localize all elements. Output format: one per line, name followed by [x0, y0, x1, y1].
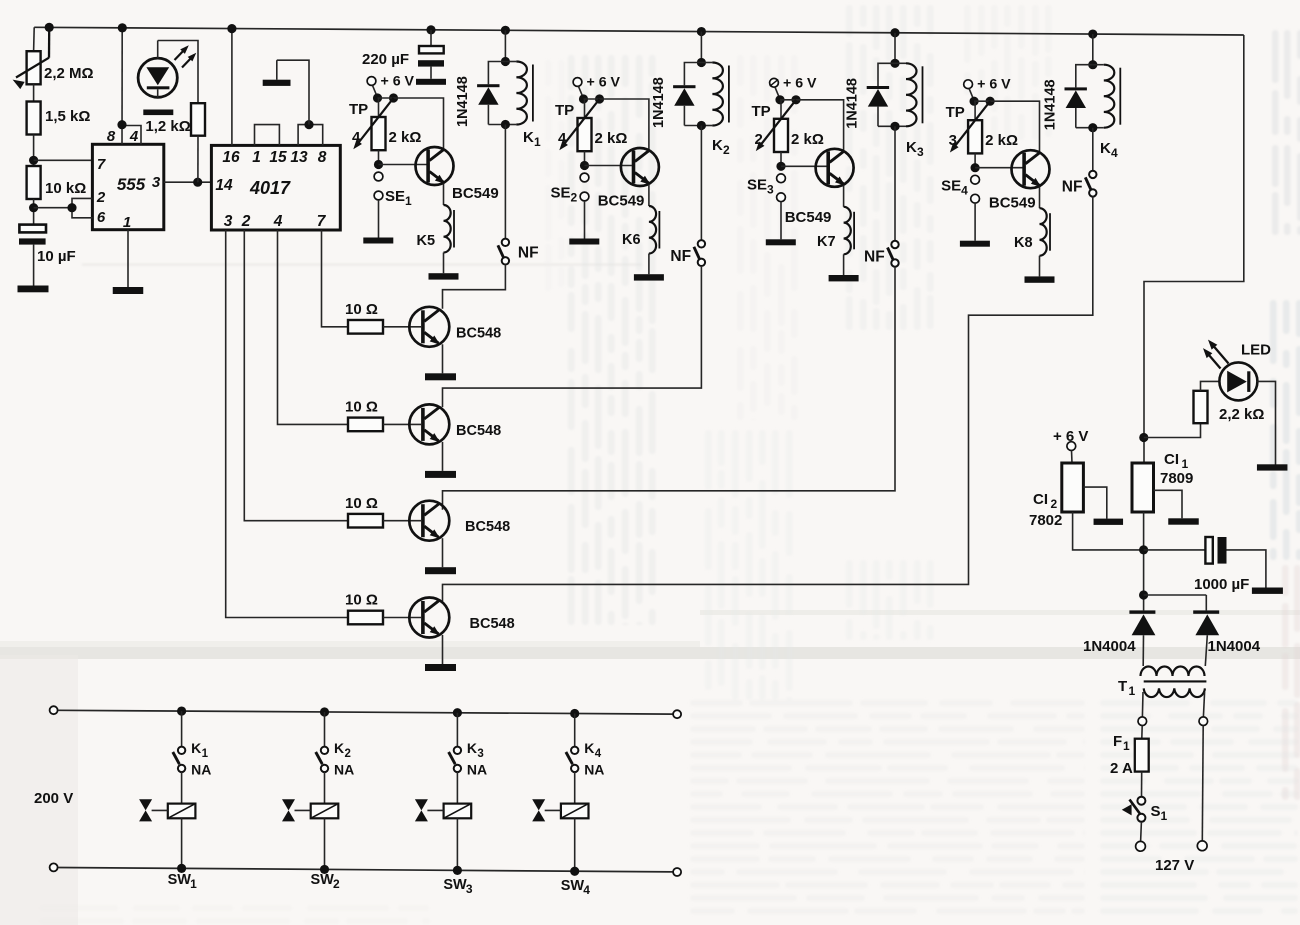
switch NF2 contact: [698, 240, 705, 247]
svg-text:SE: SE: [551, 185, 571, 202]
node base ch3: [776, 162, 785, 171]
svg-text:K5: K5: [417, 233, 436, 249]
svg-text:6: 6: [97, 209, 106, 226]
wire 555 pin 3 output: [164, 181, 212, 183]
wire NF4 to driver: [443, 197, 1093, 602]
svg-text:1,5 kΩ: 1,5 kΩ: [45, 108, 90, 125]
solenoid valve SW3: [444, 804, 472, 819]
wire rail to K4: [1092, 34, 1094, 65]
switch NF1 contact: [502, 239, 509, 246]
svg-text:LED: LED: [1241, 342, 1271, 359]
svg-text:1: 1: [202, 748, 209, 760]
switch NF4 contact: [1089, 171, 1096, 178]
svg-text:K: K: [523, 129, 534, 146]
node 220uF rail: [426, 25, 435, 34]
wire to contact K1: [181, 711, 183, 747]
svg-text:10 µF: 10 µF: [37, 248, 76, 265]
wire pins 13-8 bracket: [298, 125, 323, 146]
svg-text:K: K: [1100, 140, 1111, 157]
node trimpot top B ch3: [791, 95, 800, 104]
svg-text:10 Ω: 10 Ω: [345, 301, 378, 318]
resistor 10 kohm: [27, 166, 41, 199]
ground 4017 pins 13-8: [263, 80, 291, 86]
svg-text:BC548: BC548: [470, 616, 515, 632]
solenoid valve SW4: [561, 804, 589, 819]
LED indicator D1: [138, 58, 177, 97]
svg-text:2: 2: [571, 191, 578, 205]
svg-text:TP: TP: [349, 101, 368, 118]
svg-text:K: K: [334, 740, 344, 756]
svg-text:1: 1: [1161, 809, 1168, 823]
LED pilot D5: [1219, 362, 1257, 400]
wire NF3 to driver: [443, 267, 896, 510]
wire coil to bus SW3: [456, 818, 458, 870]
wire emitter to K5 ch1: [443, 184, 445, 206]
wire 10k to cap: [33, 199, 35, 225]
capacitor 220 uF: [430, 30, 432, 46]
trimpot TP4 2 kohm: [378, 98, 380, 117]
svg-text:2 A: 2 A: [1110, 760, 1133, 777]
ground 220uF: [416, 79, 446, 85]
wire emitter to K6 ch2: [648, 185, 650, 207]
svg-text:NA: NA: [467, 762, 487, 778]
svg-text:BC548: BC548: [456, 423, 501, 439]
svg-text:BC549: BC549: [989, 195, 1036, 212]
resistor 1,2 kohm: [191, 103, 205, 136]
wire +6V to trimpot 1: [373, 85, 378, 97]
wire primary left lead: [1141, 692, 1144, 717]
wire LED to ground: [1257, 381, 1275, 464]
wire contact to valve coil 3: [456, 772, 458, 804]
svg-text:+ 6 V: + 6 V: [977, 77, 1011, 93]
node pins 8-4: [117, 120, 126, 129]
wire coil to bus SW4: [574, 818, 576, 871]
diode 1N4004 D7: [1193, 610, 1219, 613]
diode 1N4148 D2: [684, 63, 701, 86]
wire K8 to ground: [1039, 256, 1041, 277]
wire emitter stage 4: [442, 635, 444, 664]
node +6V terminal channel 1: [367, 77, 376, 86]
wire 1,2k to node: [197, 136, 199, 183]
wire NF1 to driver: [443, 264, 506, 308]
wire to collector ch1: [378, 98, 444, 149]
ground K8: [1025, 276, 1055, 282]
wire +6V top rail: [34, 27, 1244, 35]
wire rail to K3: [894, 33, 896, 64]
resistor 10 ohm stage 4: [348, 611, 383, 625]
node trimpot top A ch1: [373, 93, 382, 102]
op-amp 4017 counter U2: [211, 145, 340, 230]
regulator CI1 7809: [1132, 463, 1154, 512]
svg-text:7: 7: [317, 213, 327, 230]
node pin16 rail: [227, 24, 236, 33]
node LED branch: [1139, 433, 1148, 442]
wire SE4 to ground: [974, 203, 976, 241]
wire contact to valve coil 1: [181, 772, 183, 804]
svg-text:+ 6 V: + 6 V: [783, 75, 817, 91]
relay coil K3: [895, 62, 906, 64]
wire to collector ch4: [974, 101, 1039, 152]
svg-text:1N4148: 1N4148: [455, 76, 471, 127]
svg-text:10 Ω: 10 Ω: [345, 592, 378, 609]
wire SE2 to ground: [584, 201, 586, 239]
ground stage 2: [425, 471, 456, 478]
node bus bottom left terminal: [50, 863, 58, 871]
svg-text:BC549: BC549: [452, 185, 499, 202]
potentiometer 2,2 Mohm: [27, 51, 41, 84]
capacitor 10 uF: [19, 225, 46, 233]
svg-text:2: 2: [241, 213, 251, 230]
wire K4 to NF4: [1092, 128, 1094, 171]
svg-text:4: 4: [961, 184, 968, 198]
svg-text:SW: SW: [443, 877, 467, 893]
svg-text:2 kΩ: 2 kΩ: [985, 132, 1018, 149]
svg-text:SE: SE: [747, 177, 767, 194]
node K4 top: [1088, 60, 1097, 69]
svg-text:1N4148: 1N4148: [651, 77, 667, 128]
svg-text:2 kΩ: 2 kΩ: [595, 130, 628, 147]
wire resistor to LED: [1201, 381, 1220, 390]
resistor 2,2 kohm LED: [1194, 391, 1208, 423]
wire to 555 pin 7: [34, 159, 93, 161]
svg-text:T: T: [1118, 678, 1127, 695]
svg-text:BC549: BC549: [785, 209, 832, 226]
regulator CI2 7802: [1062, 463, 1084, 512]
wire 555 pin 4 bracket: [122, 126, 141, 145]
svg-text:SW: SW: [561, 878, 585, 894]
svg-text:3: 3: [477, 748, 483, 760]
node rail K2: [697, 27, 706, 36]
wire to contact K2: [324, 712, 326, 747]
svg-text:13: 13: [290, 149, 308, 166]
svg-text:15: 15: [269, 149, 287, 166]
svg-text:4: 4: [595, 748, 602, 760]
svg-text:2: 2: [755, 131, 763, 148]
wire CI1 output down: [1143, 512, 1145, 610]
svg-text:2: 2: [96, 189, 106, 206]
wire emitter stage 1: [442, 344, 444, 373]
node pins 2-6 junction: [29, 203, 38, 212]
svg-text:4: 4: [129, 128, 139, 145]
svg-text:7809: 7809: [1160, 470, 1193, 487]
node bus bottom right terminal: [673, 868, 681, 876]
wire contact to valve coil 4: [574, 772, 576, 804]
svg-text:4017: 4017: [249, 178, 291, 198]
resistor 10 ohm stage 3: [348, 514, 383, 528]
svg-text:K7: K7: [817, 234, 836, 250]
svg-text:NF: NF: [670, 248, 691, 265]
transistor Q2 BC549: [621, 148, 659, 186]
wire 4017 output to stage 2: [278, 230, 349, 424]
svg-text:1: 1: [1129, 684, 1136, 698]
svg-text:200 V: 200 V: [34, 790, 73, 807]
wire CI2 to ground: [1083, 487, 1106, 518]
wire emitter to K7 ch3: [843, 185, 845, 207]
node 127V right terminal: [1197, 841, 1207, 851]
wire 555 pin 8 to rail: [121, 28, 123, 145]
svg-text:TP: TP: [555, 102, 574, 119]
svg-text:10 Ω: 10 Ω: [345, 495, 378, 512]
node pins 13-8: [304, 120, 313, 129]
node bus top K3: [453, 708, 462, 717]
node rail-pot wiper: [45, 23, 54, 32]
svg-text:7: 7: [97, 156, 106, 173]
svg-text:220 µF: 220 µF: [362, 51, 409, 68]
relay coil K6: [649, 206, 656, 254]
svg-text:555: 555: [117, 175, 146, 194]
wire 555 pin 1 to ground: [127, 230, 129, 287]
wire 1000uF to ground: [1227, 550, 1266, 588]
node +6V regulator CI2: [1067, 442, 1076, 451]
solenoid valve SW2: [311, 804, 339, 819]
wire SE3 to ground: [780, 202, 782, 240]
wire 555 pins 2-6 bracket: [72, 198, 92, 217]
node K2 top: [697, 58, 706, 67]
wire K3 to NF3: [894, 126, 896, 241]
svg-text:1: 1: [1182, 457, 1189, 471]
solenoid valve SW1: [168, 804, 196, 819]
svg-text:4: 4: [352, 129, 361, 146]
svg-text:CI: CI: [1033, 491, 1048, 508]
svg-text:BC548: BC548: [456, 325, 501, 341]
ground SE4: [960, 241, 990, 247]
svg-text:S: S: [1151, 803, 1161, 820]
wire CI2 input: [1073, 512, 1144, 550]
node bus top K1: [177, 706, 186, 715]
ground SE3: [766, 239, 796, 245]
transistor BC548 Q8: [409, 598, 449, 638]
svg-text:16: 16: [222, 149, 240, 166]
svg-text:10 Ω: 10 Ω: [345, 399, 378, 416]
svg-text:3: 3: [767, 183, 774, 197]
wire K6 to ground: [648, 254, 650, 275]
svg-text:1000 µF: 1000 µF: [1194, 576, 1249, 593]
wire 4017 output to stage 3: [244, 230, 348, 521]
wire S1 to line terminal: [1140, 822, 1143, 842]
capacitor 1000 uF: [1205, 537, 1212, 564]
wire +6V to trimpot 4: [969, 89, 974, 101]
wire rail to regulator staircase: [1144, 35, 1244, 463]
wire +6V to trimpot 2: [579, 86, 584, 98]
wire terminal to fuse: [1141, 726, 1143, 739]
diode 1N4148 D3: [878, 63, 895, 86]
fuse F1 2A: [1135, 739, 1149, 772]
ground SE2: [569, 239, 599, 245]
svg-text:SW: SW: [168, 872, 192, 888]
svg-text:SW: SW: [311, 872, 335, 888]
node SE4 terminal upper: [971, 175, 980, 184]
node +6V terminal channel 2: [573, 78, 582, 87]
transistor Q4 BC549: [1012, 150, 1050, 188]
svg-text:TP: TP: [752, 103, 771, 120]
ground CI2: [1094, 519, 1124, 525]
wire emitter stage 2: [442, 442, 444, 471]
wire emitter stage 3: [442, 538, 444, 567]
node base ch2: [580, 161, 589, 170]
svg-text:3: 3: [152, 174, 161, 191]
wire 1,5k to 10k: [33, 135, 35, 167]
wire trimpot to base ch4: [974, 153, 976, 167]
svg-text:4: 4: [558, 130, 567, 147]
svg-text:3: 3: [466, 882, 473, 896]
wire fuse to switch S1: [1141, 772, 1143, 797]
op-amp 555 timer U1: [92, 144, 163, 229]
node K1 top: [501, 57, 510, 66]
svg-text:2 kΩ: 2 kΩ: [389, 129, 422, 146]
node SE3 terminal lower: [777, 193, 786, 202]
svg-text:2 kΩ: 2 kΩ: [791, 131, 824, 148]
wire to 1000uF: [1144, 549, 1206, 551]
wire right lead down: [1201, 726, 1204, 841]
wire pot to 1,5k: [33, 84, 35, 101]
svg-text:1: 1: [1123, 739, 1130, 753]
wire trimpot to base ch2: [584, 151, 586, 165]
svg-text:+ 6 V: + 6 V: [1053, 428, 1088, 445]
ground LED: [143, 110, 173, 116]
svg-text:CI: CI: [1164, 451, 1179, 468]
svg-text:127 V: 127 V: [1155, 857, 1194, 874]
svg-text:2: 2: [723, 143, 730, 157]
node pin7 junction: [29, 156, 38, 165]
ground K5: [429, 273, 459, 279]
svg-text:SE: SE: [941, 178, 961, 195]
svg-text:1N4004: 1N4004: [1208, 638, 1261, 655]
switch S1: [1137, 797, 1145, 805]
svg-text:14: 14: [215, 177, 233, 194]
node K1 bottom: [501, 120, 510, 129]
relay coil K8: [1040, 208, 1047, 255]
wire to contact K3: [456, 713, 458, 747]
wire 4017 output to stage 1: [322, 230, 349, 327]
svg-text:K8: K8: [1014, 235, 1033, 251]
wire pins 1-15 bracket: [255, 125, 280, 146]
node base ch4: [971, 163, 980, 172]
svg-text:1N4148: 1N4148: [1042, 79, 1058, 130]
svg-text:K: K: [191, 740, 201, 756]
wire K7 to ground: [843, 254, 845, 275]
node K3 bottom: [890, 122, 899, 131]
diode 1N4148 D1: [488, 62, 505, 85]
node rectifier output: [1139, 590, 1148, 599]
svg-text:BC549: BC549: [598, 193, 645, 210]
wire to 555 pins 2-6: [34, 207, 72, 209]
svg-text:3: 3: [949, 132, 957, 149]
svg-text:7802: 7802: [1029, 512, 1062, 529]
svg-text:1: 1: [405, 194, 412, 208]
wire contact to valve coil 2: [324, 772, 326, 804]
ground stage 1: [425, 373, 456, 380]
node rail K3: [890, 28, 899, 37]
node SE1 terminal upper: [374, 172, 383, 181]
wire pot top lead: [33, 27, 36, 51]
node output-1,2k: [193, 178, 202, 187]
relay coil K4: [1093, 64, 1104, 66]
ground CI1: [1168, 518, 1199, 524]
transistor BC548 Q5: [409, 307, 449, 347]
node K4 bottom: [1088, 123, 1097, 132]
wire to collector ch3: [780, 100, 844, 151]
node SE4 terminal lower: [971, 194, 980, 203]
svg-text:1N4148: 1N4148: [845, 78, 861, 129]
svg-text:BC548: BC548: [465, 519, 510, 535]
trimpot TP4 2 kohm: [584, 99, 586, 118]
ground LED pilot: [1257, 464, 1288, 470]
transformer T1: [1141, 667, 1205, 677]
trimpot TP3 2 kohm: [974, 101, 976, 120]
resistor 1,5 kohm: [27, 102, 41, 135]
node bus top K4: [570, 709, 579, 718]
node 127V left terminal: [1136, 841, 1146, 851]
svg-text:2: 2: [345, 748, 351, 760]
node rail K1: [501, 26, 510, 35]
wire 4017 pin16 to rail: [231, 29, 233, 146]
switch K4 NA contact: [571, 747, 578, 754]
wire trimpot to base ch3: [780, 152, 782, 166]
node trimpot top B ch1: [389, 93, 398, 102]
wire K5 to ground: [443, 253, 445, 274]
node 555 pin8 rail: [118, 23, 127, 32]
wire 10ohm to base stage 1: [383, 326, 421, 328]
svg-text:2: 2: [333, 877, 340, 891]
wire SE1 to ground: [378, 200, 380, 238]
svg-text:K: K: [467, 740, 477, 756]
svg-text:3: 3: [224, 213, 233, 230]
resistor 10 ohm stage 1: [348, 320, 383, 334]
wire rectifier bus: [1144, 594, 1207, 596]
wire to contact K4: [574, 714, 576, 747]
ground stage 4: [425, 664, 456, 671]
node base ch1: [374, 160, 383, 169]
transistor BC548 Q7: [409, 501, 449, 541]
node SE2 terminal lower: [580, 192, 589, 201]
svg-text:F: F: [1113, 733, 1122, 750]
svg-text:K: K: [584, 740, 594, 756]
svg-text:+ 6 V: + 6 V: [381, 74, 415, 90]
svg-text:8: 8: [107, 128, 116, 145]
node SE1 terminal lower: [374, 191, 383, 200]
node bus top right terminal: [673, 710, 681, 718]
svg-text:NF: NF: [864, 249, 885, 266]
svg-text:4: 4: [1111, 146, 1118, 160]
node rail K4: [1088, 29, 1097, 38]
node K2 bottom: [697, 121, 706, 130]
wire K1 to NF1: [504, 125, 506, 239]
relay coil K5: [444, 205, 451, 252]
svg-text:NA: NA: [191, 762, 211, 778]
wire CI1 to ground: [1154, 490, 1183, 518]
svg-text:2: 2: [1051, 497, 1058, 511]
node primary right upper terminal: [1199, 717, 1208, 726]
svg-text:1: 1: [123, 214, 131, 231]
wire pins13-8 to ground: [277, 60, 309, 124]
node +6V terminal channel 3: [770, 78, 779, 87]
svg-text:2,2 kΩ: 2,2 kΩ: [1219, 406, 1264, 423]
node bus bottom SW1: [177, 864, 186, 873]
wire load bus top: [58, 710, 672, 714]
svg-text:+ 6 V: + 6 V: [587, 75, 621, 91]
node primary left terminal: [1138, 717, 1147, 726]
switch K3 NA contact: [454, 747, 461, 754]
svg-text:2,2 MΩ: 2,2 MΩ: [44, 65, 94, 82]
wire load bus bottom: [58, 868, 672, 872]
wire secondary right lead: [1203, 692, 1204, 717]
relay coil K7: [844, 207, 851, 254]
transistor BC548 Q6: [409, 404, 449, 444]
svg-text:4: 4: [273, 213, 283, 230]
wire rail to K2: [700, 32, 702, 63]
diode 1N4148 D4: [1076, 65, 1093, 88]
svg-text:1: 1: [190, 877, 197, 891]
